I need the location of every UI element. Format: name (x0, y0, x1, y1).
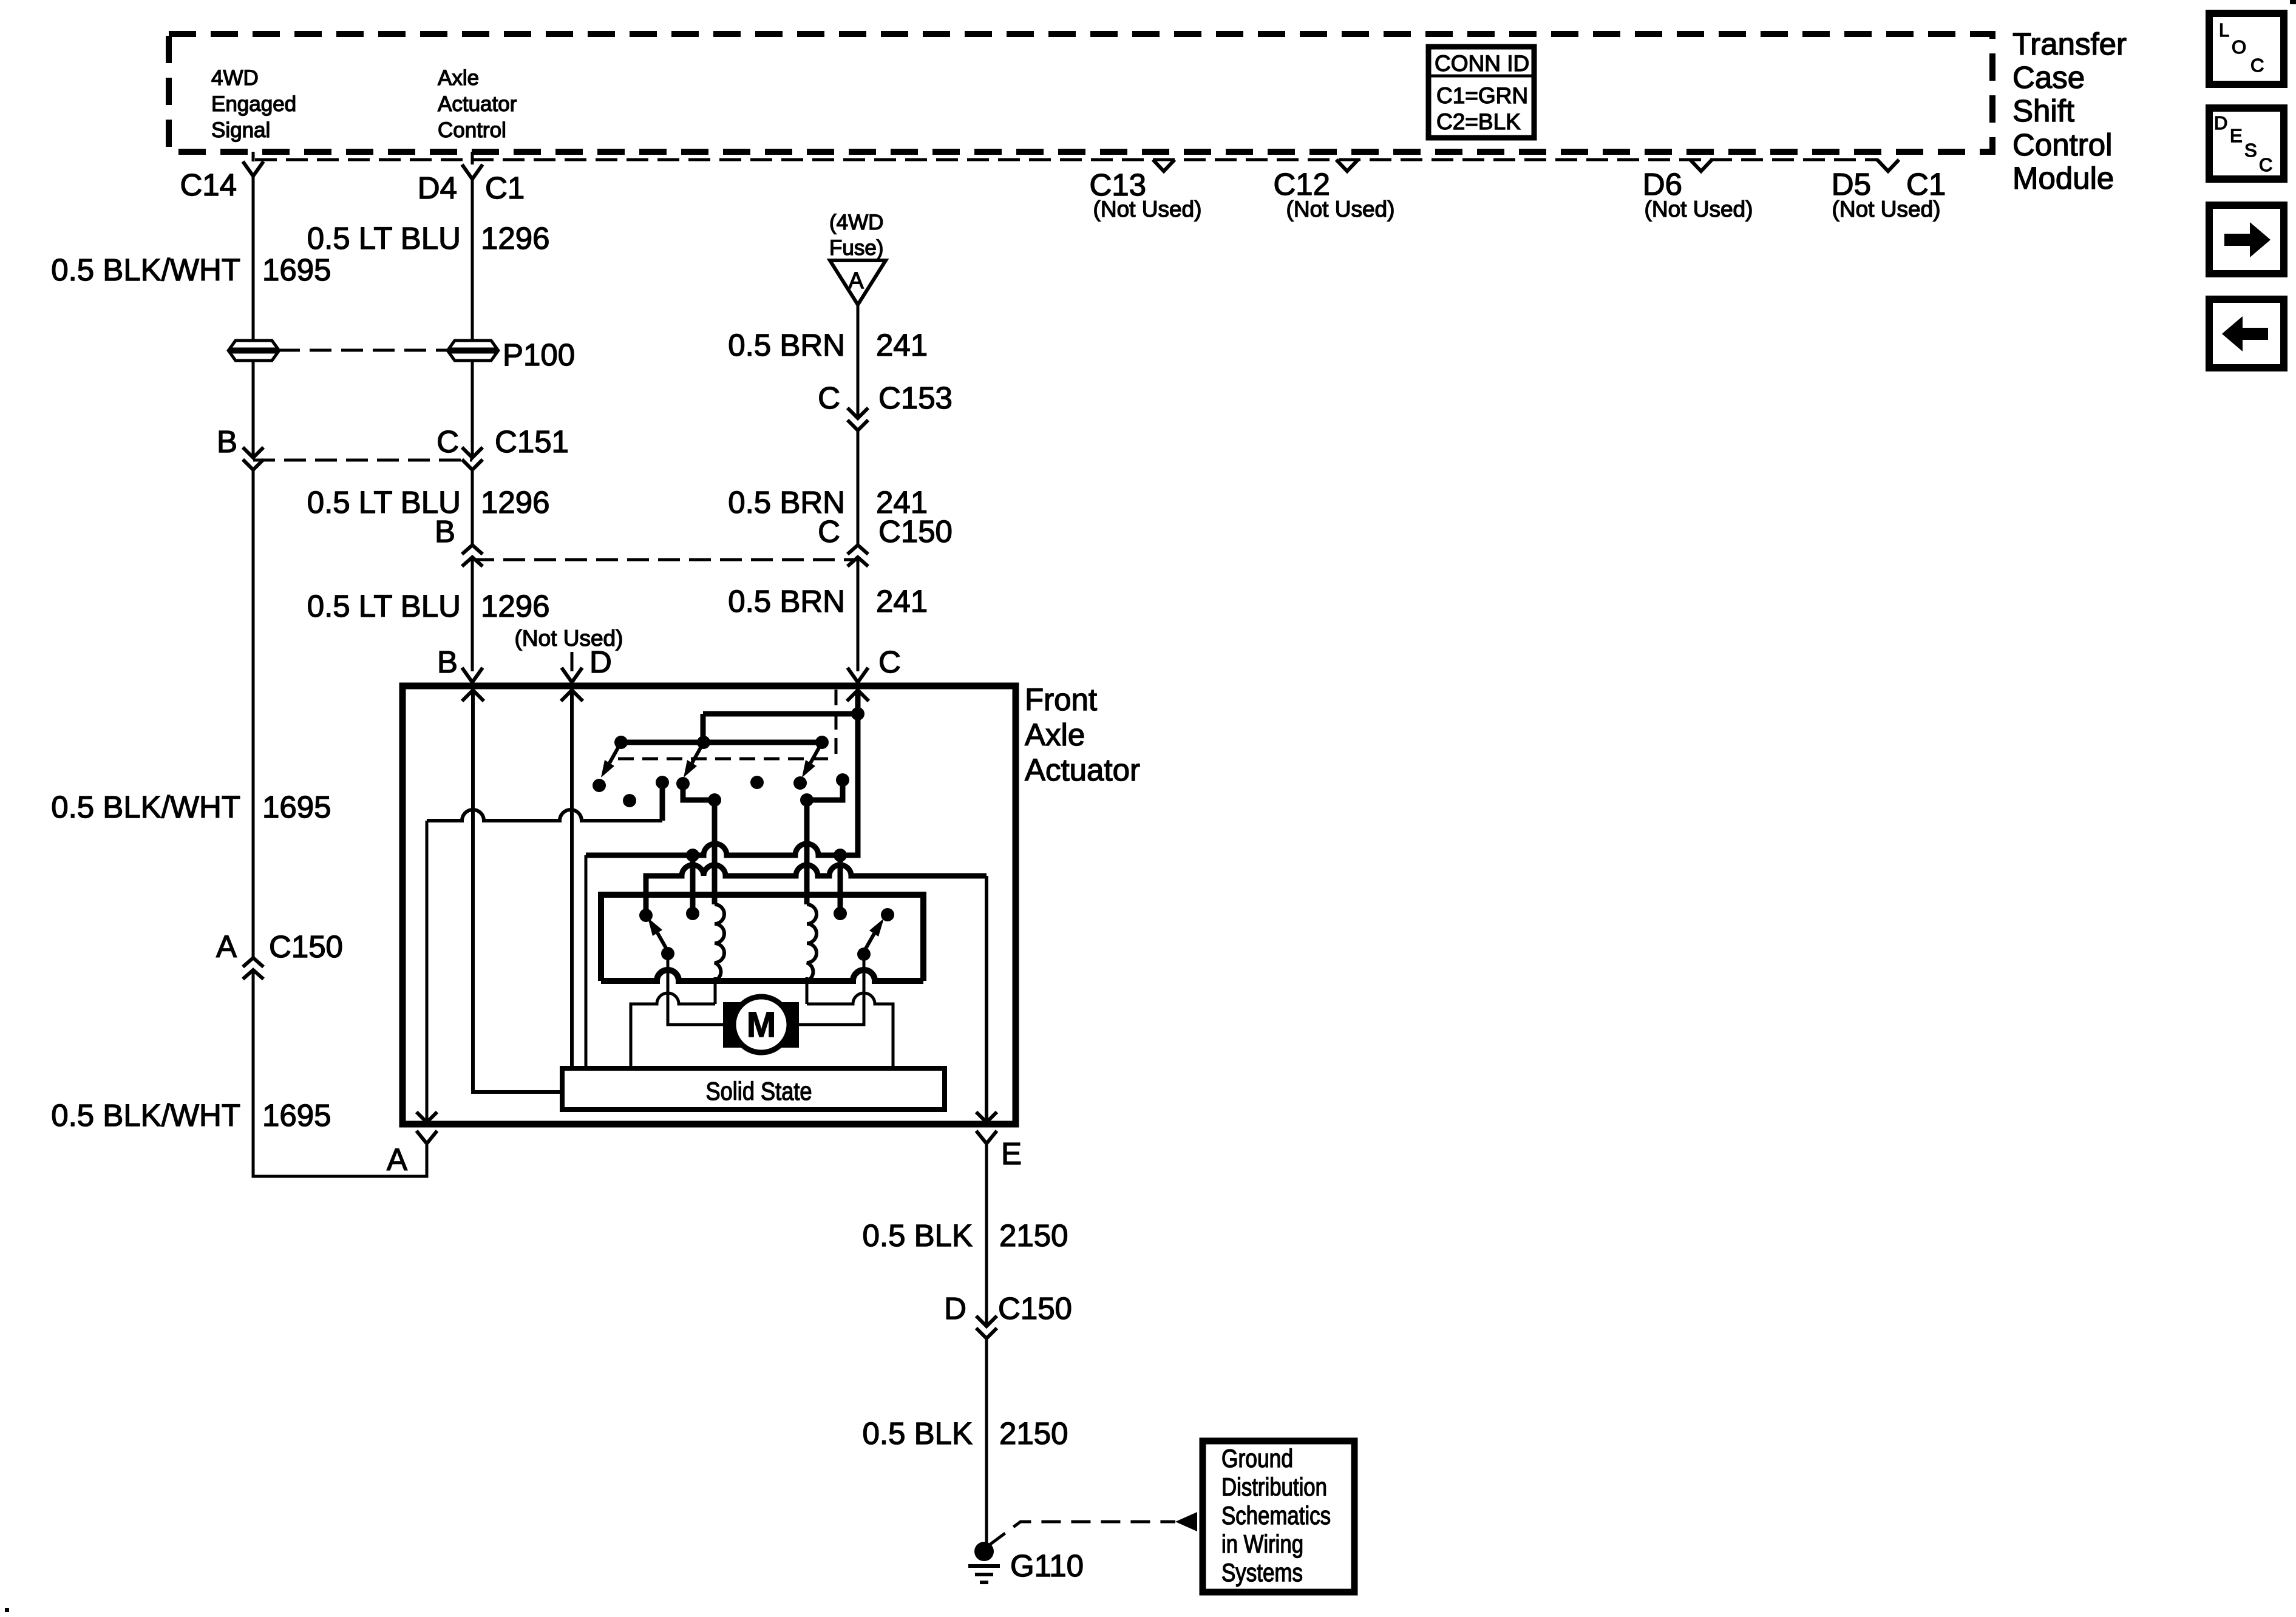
svg-text:241: 241 (876, 584, 928, 619)
svg-text:D: D (2214, 112, 2227, 134)
svg-text:E: E (2230, 125, 2243, 146)
svg-text:Case: Case (2012, 60, 2085, 95)
svg-text:2150: 2150 (999, 1416, 1068, 1451)
svg-text:C: C (2250, 55, 2264, 76)
svg-text:Axle: Axle (438, 66, 479, 90)
svg-text:Axle: Axle (1025, 717, 1085, 752)
svg-text:1296: 1296 (481, 485, 549, 520)
svg-text:Module: Module (2012, 161, 2114, 195)
svg-text:1296: 1296 (481, 221, 549, 256)
svg-text:Control: Control (438, 118, 506, 142)
svg-text:1695: 1695 (262, 790, 331, 824)
svg-text:Front: Front (1025, 682, 1097, 717)
svg-text:C150: C150 (269, 929, 343, 964)
svg-text:in Wiring: in Wiring (1221, 1530, 1303, 1558)
svg-text:B: B (437, 645, 458, 679)
svg-text:A: A (387, 1142, 407, 1177)
svg-text:Schematics: Schematics (1221, 1501, 1331, 1530)
svg-text:Solid State: Solid State (706, 1077, 812, 1105)
svg-text:E: E (1001, 1136, 1022, 1171)
svg-text:B: B (217, 424, 237, 459)
svg-text:Transfer: Transfer (2012, 27, 2127, 61)
svg-text:A: A (848, 268, 864, 294)
svg-text:241: 241 (876, 328, 928, 362)
svg-text:Shift: Shift (2012, 93, 2074, 128)
svg-text:D4: D4 (418, 171, 457, 205)
svg-text:0.5 BLK: 0.5 BLK (863, 1218, 973, 1253)
svg-text:0.5 BRN: 0.5 BRN (728, 328, 845, 362)
svg-text:C153: C153 (878, 381, 953, 415)
svg-text:C151: C151 (495, 424, 569, 459)
svg-text:D: D (944, 1291, 966, 1326)
svg-text:A: A (216, 929, 237, 964)
svg-text:(Not Used): (Not Used) (1645, 197, 1753, 222)
svg-text:1695: 1695 (262, 253, 331, 287)
svg-text:D: D (589, 645, 612, 679)
svg-text:C14: C14 (180, 168, 237, 202)
svg-text:C: C (818, 514, 840, 549)
svg-text:C: C (878, 645, 901, 679)
svg-text:Ground: Ground (1221, 1444, 1293, 1473)
svg-text:B: B (435, 514, 455, 549)
svg-text:C1: C1 (485, 171, 525, 205)
svg-text:Control: Control (2012, 127, 2112, 162)
svg-text:C1=GRN: C1=GRN (1436, 83, 1528, 108)
svg-text:0.5 BLK: 0.5 BLK (863, 1416, 973, 1451)
svg-text:(Not Used): (Not Used) (1832, 197, 1941, 222)
svg-text:0.5 LT BLU: 0.5 LT BLU (307, 589, 461, 623)
svg-text:Actuator: Actuator (1025, 753, 1140, 787)
svg-text:(Not Used): (Not Used) (1093, 197, 1202, 222)
svg-text:O: O (2232, 36, 2246, 58)
svg-text:0.5 BRN: 0.5 BRN (728, 584, 845, 619)
svg-text:Actuator: Actuator (438, 92, 517, 116)
svg-text:C150: C150 (998, 1291, 1072, 1326)
svg-text:Fuse): Fuse) (829, 236, 883, 260)
svg-text:(4WD: (4WD (829, 211, 883, 234)
svg-text:0.5 LT BLU: 0.5 LT BLU (307, 221, 461, 256)
svg-text:Signal: Signal (211, 118, 270, 142)
svg-text:1695: 1695 (262, 1098, 331, 1133)
svg-text:C150: C150 (878, 514, 953, 549)
svg-text:0.5 BLK/WHT: 0.5 BLK/WHT (51, 790, 240, 824)
svg-text:0.5 BLK/WHT: 0.5 BLK/WHT (51, 1098, 240, 1133)
svg-text:4WD: 4WD (211, 66, 259, 90)
svg-text:C: C (2259, 154, 2272, 175)
svg-text:G110: G110 (1010, 1548, 1084, 1583)
svg-text:2150: 2150 (999, 1218, 1068, 1253)
svg-text:Engaged: Engaged (211, 92, 296, 116)
svg-text:C: C (818, 381, 840, 415)
svg-text:0.5 BLK/WHT: 0.5 BLK/WHT (51, 253, 240, 287)
svg-text:L: L (2219, 19, 2229, 41)
svg-text:Systems: Systems (1221, 1558, 1303, 1587)
svg-text:1296: 1296 (481, 589, 549, 623)
svg-text:P100: P100 (503, 337, 575, 372)
svg-text:(Not Used): (Not Used) (1286, 197, 1395, 222)
svg-text:CONN ID: CONN ID (1435, 51, 1529, 76)
svg-text:Distribution: Distribution (1221, 1473, 1327, 1501)
svg-text:C2=BLK: C2=BLK (1436, 109, 1521, 134)
svg-text:M: M (747, 1005, 776, 1045)
svg-text:C: C (436, 424, 459, 459)
svg-text:S: S (2244, 140, 2257, 161)
